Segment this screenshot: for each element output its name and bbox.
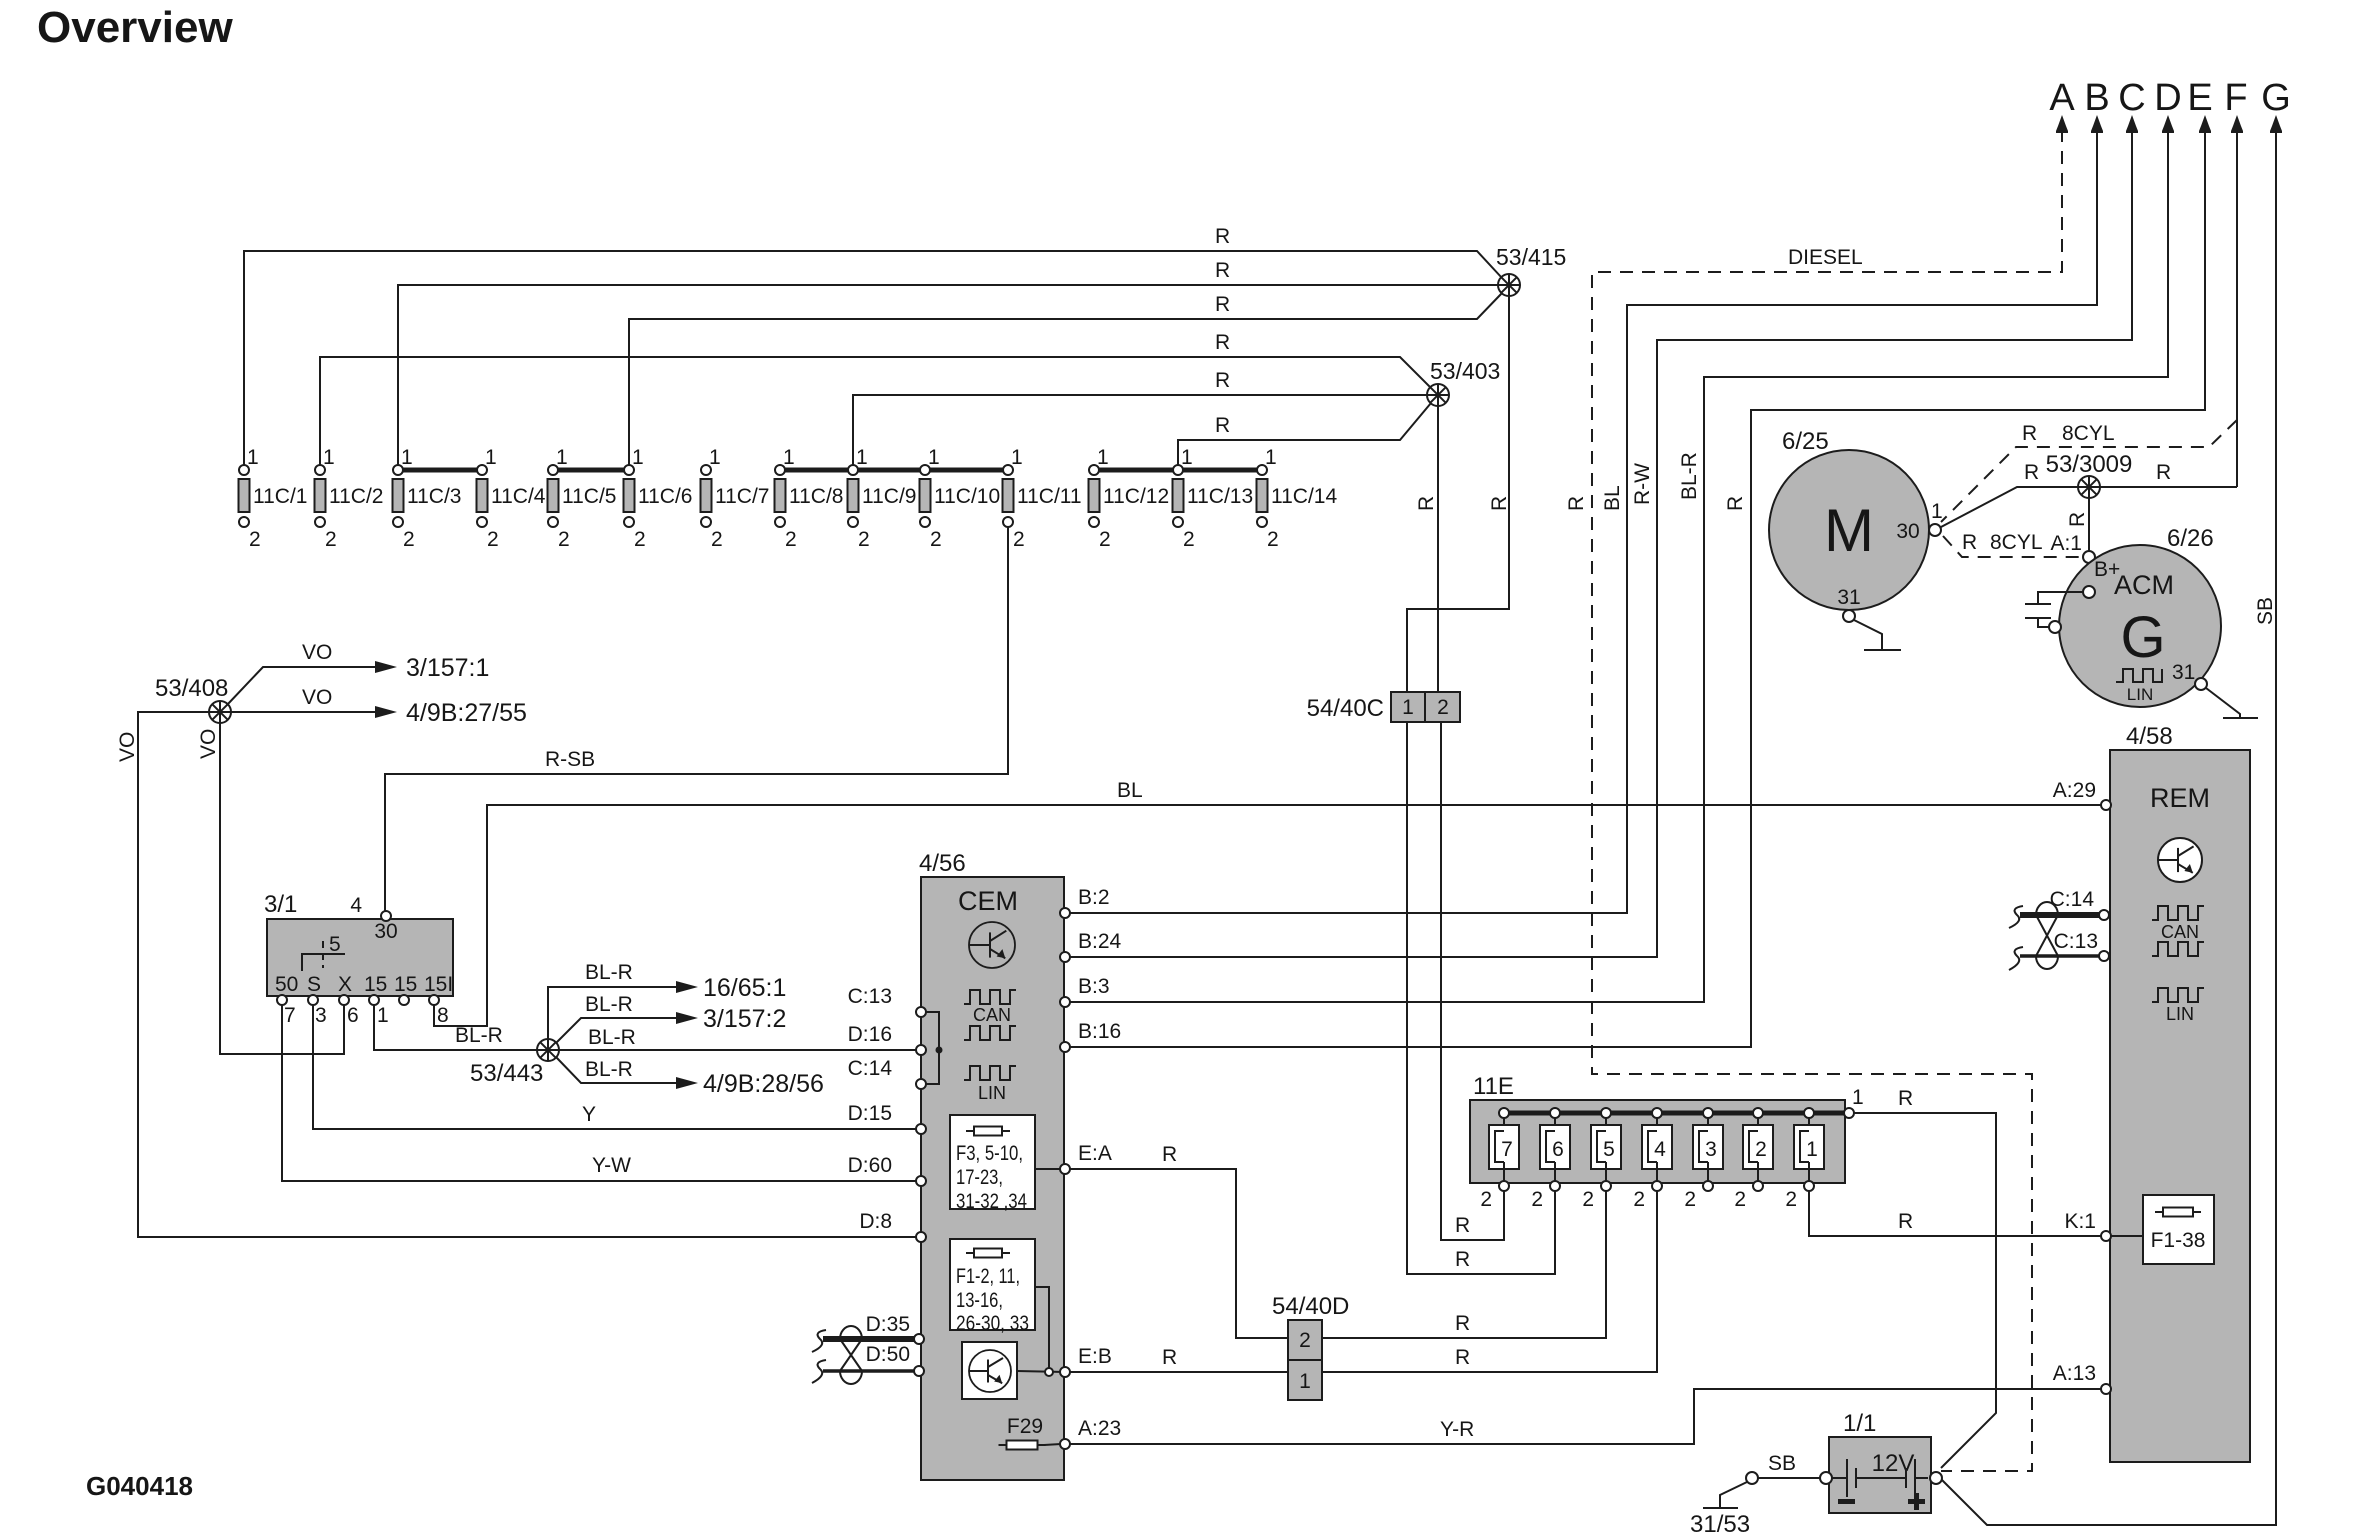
svg-text:E:B: E:B bbox=[1078, 1345, 1112, 1368]
LIN symbol in CEM bbox=[964, 1066, 1016, 1103]
svg-text:BL-R: BL-R bbox=[588, 1026, 636, 1049]
svg-text:1: 1 bbox=[632, 446, 644, 469]
terminal E:A of CEM bbox=[1060, 1142, 1112, 1174]
svg-text:K:1: K:1 bbox=[2064, 1210, 2096, 1233]
svg-text:2: 2 bbox=[249, 528, 261, 551]
svg-text:1: 1 bbox=[783, 446, 795, 469]
terminal D:15 of CEM bbox=[916, 1124, 926, 1134]
wire BL-R CEM B:3 to arrow D bbox=[1065, 129, 2168, 1002]
svg-text:BL-R: BL-R bbox=[455, 1024, 503, 1047]
svg-text:2: 2 bbox=[558, 528, 570, 551]
fuse 11C/1 bbox=[239, 446, 308, 551]
wire R 54/40D:2 to 11E:5 pin 2 bbox=[1322, 1191, 1606, 1338]
svg-text:BL-R: BL-R bbox=[585, 1058, 633, 1081]
wire R 11E:1 to battery + bbox=[1854, 1087, 1996, 1468]
svg-text:D:60: D:60 bbox=[848, 1154, 892, 1177]
fuse 11C/6 bbox=[624, 446, 693, 551]
net label B (page reference arrow) bbox=[2084, 77, 2109, 133]
svg-text:1: 1 bbox=[1299, 1370, 1311, 1393]
svg-text:3/157:2: 3/157:2 bbox=[703, 1005, 786, 1033]
terminal A:29 of REM bbox=[2053, 779, 2111, 810]
fuse 11C/2 bbox=[315, 446, 384, 551]
terminal plus of battery bbox=[1930, 1472, 1942, 1484]
svg-text:1: 1 bbox=[1097, 446, 1109, 469]
terminal minus of battery bbox=[1820, 1472, 1832, 1484]
fuse 11C/5 bbox=[548, 446, 617, 551]
svg-text:VO: VO bbox=[197, 729, 220, 759]
svg-text:53/3009: 53/3009 bbox=[2046, 451, 2133, 478]
svg-text:4/9B:27/55: 4/9B:27/55 bbox=[406, 699, 527, 727]
connector 54/40C bbox=[1307, 692, 1460, 722]
fuse group F3,5-10,17-23,31-32,34 in CEM bbox=[950, 1115, 1035, 1213]
svg-text:BL: BL bbox=[1601, 485, 1624, 511]
svg-text:8CYL: 8CYL bbox=[1990, 531, 2043, 554]
junction 53/403 bbox=[1427, 358, 1500, 406]
svg-text:D: D bbox=[2154, 77, 2181, 119]
svg-text:15I: 15I bbox=[424, 973, 453, 996]
wire VO 53/408 to 4/9B:27/55 bbox=[231, 686, 527, 727]
junction 53/415 bbox=[1496, 244, 1566, 296]
CAN symbol in CEM bbox=[964, 990, 1016, 1040]
fuse 5 in 11E bbox=[1582, 1108, 1621, 1211]
LIN square wave in ACM bbox=[2116, 669, 2162, 682]
svg-text:R-SB: R-SB bbox=[545, 748, 595, 771]
svg-text:F29: F29 bbox=[1007, 1415, 1043, 1438]
svg-text:7: 7 bbox=[1501, 1138, 1513, 1161]
svg-text:C:14: C:14 bbox=[848, 1057, 893, 1080]
fuse F1-38 in REM bbox=[2110, 1195, 2214, 1264]
svg-text:31/53: 31/53 bbox=[1690, 1511, 1750, 1537]
svg-text:7: 7 bbox=[284, 1004, 296, 1027]
svg-text:2: 2 bbox=[1684, 1188, 1696, 1211]
svg-text:3/1: 3/1 bbox=[264, 891, 297, 918]
svg-text:11C/8: 11C/8 bbox=[789, 485, 843, 508]
terminal on ACM left edge bbox=[2049, 621, 2061, 633]
fuse 4 in 11E bbox=[1633, 1108, 1672, 1211]
svg-text:2: 2 bbox=[1531, 1188, 1543, 1211]
svg-text:CEM: CEM bbox=[958, 886, 1018, 916]
svg-text:4/58: 4/58 bbox=[2126, 723, 2173, 750]
fuse 11C/10 bbox=[920, 446, 1001, 551]
wire R-W CEM B:24 to arrow C bbox=[1065, 129, 2132, 957]
wire SB arrow G down right side to battery + bbox=[1941, 129, 2277, 1525]
svg-text:31: 31 bbox=[1837, 586, 1860, 609]
svg-text:D:50: D:50 bbox=[866, 1343, 910, 1366]
svg-text:R: R bbox=[1215, 414, 1230, 437]
svg-text:53/443: 53/443 bbox=[470, 1060, 543, 1087]
internal ground plates at ACM left terminal bbox=[2025, 592, 2083, 627]
battery 1/1 12V bbox=[1829, 1410, 1931, 1513]
svg-text:5: 5 bbox=[329, 933, 341, 956]
wire R CEM E:A to 54/40D:2 bbox=[1070, 1143, 1288, 1338]
bus wire joining 11C/3-11C/4 pins 1 bbox=[398, 468, 482, 473]
svg-text:11C/2: 11C/2 bbox=[329, 485, 383, 508]
svg-text:5: 5 bbox=[1603, 1138, 1615, 1161]
svg-text:54/40C: 54/40C bbox=[1307, 695, 1384, 722]
svg-text:R: R bbox=[1565, 496, 1588, 511]
wire fuse group 2 and transistor to CEM E:B bbox=[1017, 1287, 1065, 1376]
svg-text:11C/10: 11C/10 bbox=[934, 485, 1000, 508]
ECU REM 4/58 bbox=[2110, 723, 2250, 1462]
svg-text:R: R bbox=[1162, 1143, 1177, 1166]
svg-text:E: E bbox=[2187, 77, 2212, 119]
svg-text:2: 2 bbox=[785, 528, 797, 551]
wire R 8CYL (dashed) from F vertical to M terminal 30 bbox=[1941, 420, 2237, 522]
svg-text:R: R bbox=[1215, 259, 1230, 282]
svg-text:26-30, 33: 26-30, 33 bbox=[956, 1312, 1029, 1335]
svg-text:C: C bbox=[2118, 77, 2145, 119]
svg-text:A:23: A:23 bbox=[1078, 1417, 1121, 1440]
svg-text:F: F bbox=[2224, 77, 2247, 119]
svg-text:G040418: G040418 bbox=[86, 1471, 193, 1501]
svg-text:1: 1 bbox=[323, 446, 335, 469]
svg-text:CAN: CAN bbox=[973, 1005, 1011, 1025]
svg-text:R: R bbox=[1455, 1248, 1470, 1271]
svg-text:G: G bbox=[2261, 77, 2291, 119]
svg-text:G: G bbox=[2120, 605, 2165, 670]
wire BL 3/1 terminal 15I to REM A:29 bbox=[434, 779, 2101, 1026]
svg-text:R: R bbox=[1898, 1210, 1913, 1233]
bus wire joining 11C/8-11C/11 pins 1 bbox=[780, 468, 1008, 473]
wire R 54/40C:2 down to 11E:7 pin 2 bbox=[1441, 722, 1504, 1240]
wire SB battery minus to ground 31/53 bbox=[1720, 1452, 1820, 1508]
wire BL-R 53/443 to 3/157:2 bbox=[556, 993, 786, 1043]
transistor symbol in REM bbox=[2158, 838, 2202, 882]
terminal B:2 of CEM bbox=[1060, 886, 1110, 918]
svg-text:15: 15 bbox=[394, 973, 417, 996]
svg-text:11C/9: 11C/9 bbox=[862, 485, 916, 508]
wire R 11C/13:1 to 53/403 bbox=[1178, 403, 1431, 470]
net label F (page reference arrow) bbox=[2224, 77, 2247, 133]
svg-text:1: 1 bbox=[856, 446, 868, 469]
svg-text:4/56: 4/56 bbox=[919, 850, 966, 877]
fuse 11C/3 bbox=[393, 446, 462, 551]
terminal C:13 of CEM bbox=[916, 1007, 926, 1017]
svg-text:1: 1 bbox=[1806, 1138, 1818, 1161]
svg-text:2: 2 bbox=[1755, 1138, 1767, 1161]
svg-text:53/408: 53/408 bbox=[155, 675, 228, 702]
svg-text:30: 30 bbox=[374, 920, 397, 943]
terminal A:23 of CEM bbox=[1060, 1417, 1121, 1449]
svg-text:11C/1: 11C/1 bbox=[253, 485, 307, 508]
svg-text:2: 2 bbox=[1582, 1188, 1594, 1211]
svg-text:1: 1 bbox=[928, 446, 940, 469]
junction 53/3009 bbox=[2046, 451, 2133, 498]
ground under M bbox=[1854, 620, 1901, 650]
svg-text:17-23,: 17-23, bbox=[956, 1166, 1003, 1189]
wire R CEM E:B to 54/40D:1 bbox=[1070, 1346, 1288, 1372]
svg-text:Y-R: Y-R bbox=[1440, 1418, 1474, 1441]
wire Y 3/1 S to CEM D:15 bbox=[313, 1005, 921, 1129]
svg-text:R: R bbox=[2024, 461, 2039, 484]
twisted pair C:14 / C:13 at REM bbox=[2009, 888, 2109, 970]
svg-text:11C/13: 11C/13 bbox=[1187, 485, 1253, 508]
svg-text:A:29: A:29 bbox=[2053, 779, 2096, 802]
svg-text:1: 1 bbox=[709, 446, 721, 469]
fuse 11C/8 bbox=[775, 446, 844, 551]
svg-text:A: A bbox=[2049, 77, 2075, 119]
svg-text:R: R bbox=[1898, 1087, 1913, 1110]
wire R 11E fuse 1 pin 2 to REM K:1 bbox=[1809, 1191, 2101, 1236]
ground under ACM bbox=[2206, 688, 2258, 718]
wire R 11C/6:1 to 53/415 bbox=[629, 293, 1502, 470]
LIN symbol in REM bbox=[2152, 988, 2204, 1024]
svg-text:R: R bbox=[2022, 422, 2037, 445]
fuse 11C/9 bbox=[848, 446, 917, 551]
svg-text:F3, 5-10,: F3, 5-10, bbox=[956, 1142, 1023, 1165]
svg-text:1: 1 bbox=[485, 446, 497, 469]
svg-text:1: 1 bbox=[1931, 500, 1943, 523]
svg-text:2: 2 bbox=[1267, 528, 1279, 551]
terminal 1 of 11E bbox=[1844, 1086, 1864, 1118]
svg-text:2: 2 bbox=[1183, 528, 1195, 551]
svg-text:11C/14: 11C/14 bbox=[1271, 485, 1337, 508]
wire R M terminal 30 to 53/3009 to F vertical bbox=[1941, 461, 2237, 527]
svg-text:E:A: E:A bbox=[1078, 1142, 1112, 1165]
wire R 11C/3:1 to 53/415 bbox=[398, 259, 1498, 470]
transistor symbol in CEM bbox=[969, 922, 1015, 968]
fuse 11C/11 bbox=[1003, 446, 1082, 551]
wire BL-R 53/443 to 16/65:1 bbox=[548, 961, 786, 1039]
svg-text:B+: B+ bbox=[2094, 558, 2120, 581]
svg-text:C:13: C:13 bbox=[2054, 930, 2098, 953]
svg-text:S: S bbox=[307, 973, 321, 996]
terminal 31 of M bbox=[1843, 610, 1855, 622]
svg-text:A:13: A:13 bbox=[2053, 1362, 2096, 1385]
svg-text:ACM: ACM bbox=[2114, 570, 2174, 600]
svg-text:1: 1 bbox=[1011, 446, 1023, 469]
fuse box 11E bbox=[1470, 1073, 1845, 1183]
svg-text:R: R bbox=[1724, 496, 1747, 511]
svg-text:R: R bbox=[1215, 225, 1230, 248]
svg-text:B:3: B:3 bbox=[1078, 975, 1110, 998]
svg-text:VO: VO bbox=[302, 641, 332, 664]
wire R 53/415 down to 54/40C:1 bbox=[1407, 295, 1511, 692]
terminal D:60 of CEM bbox=[916, 1176, 926, 1186]
svg-text:2: 2 bbox=[1633, 1188, 1645, 1211]
svg-text:50: 50 bbox=[275, 973, 298, 996]
svg-text:2: 2 bbox=[1437, 696, 1449, 719]
svg-text:DIESEL: DIESEL bbox=[1788, 246, 1863, 269]
wire R-SB 11C/11:2 to 3/1 terminal 4 bbox=[385, 527, 1008, 911]
svg-text:11C/11: 11C/11 bbox=[1017, 485, 1082, 508]
svg-text:31-32 ,34: 31-32 ,34 bbox=[956, 1190, 1027, 1213]
bracket joining C:13, D:16, C:14 inside CEM bbox=[921, 1012, 943, 1084]
terminal B+ of ACM bbox=[2083, 586, 2095, 598]
svg-text:11C/3: 11C/3 bbox=[407, 485, 461, 508]
svg-text:R: R bbox=[1455, 1214, 1470, 1237]
wire Y-R CEM A:23 to REM A:13 bbox=[1070, 1389, 2101, 1444]
svg-text:15: 15 bbox=[364, 973, 387, 996]
svg-text:11C/7: 11C/7 bbox=[715, 485, 769, 508]
motor M 6/25 bbox=[1769, 428, 1943, 610]
svg-text:Overview: Overview bbox=[37, 3, 233, 52]
svg-text:LIN: LIN bbox=[2166, 1004, 2194, 1024]
wire BL CEM B:2 to arrow B bbox=[1065, 129, 2097, 913]
svg-text:X: X bbox=[338, 973, 352, 996]
CAN symbol in REM bbox=[2152, 906, 2204, 956]
net label E (page reference arrow) bbox=[2187, 77, 2212, 133]
svg-text:2: 2 bbox=[1480, 1188, 1492, 1211]
svg-text:Y: Y bbox=[582, 1103, 596, 1126]
svg-text:2: 2 bbox=[711, 528, 723, 551]
svg-text:F1-38: F1-38 bbox=[2151, 1229, 2206, 1252]
svg-text:1: 1 bbox=[1265, 446, 1277, 469]
junction 53/443 bbox=[470, 1039, 559, 1087]
svg-text:R: R bbox=[1162, 1346, 1177, 1369]
wire BL-R 53/443 to 4/9B:28/56 bbox=[556, 1057, 824, 1098]
svg-text:REM: REM bbox=[2150, 783, 2210, 813]
svg-text:3: 3 bbox=[1705, 1138, 1717, 1161]
svg-text:1/1: 1/1 bbox=[1843, 1410, 1876, 1437]
svg-text:R: R bbox=[1215, 331, 1230, 354]
svg-text:6: 6 bbox=[1552, 1138, 1564, 1161]
svg-text:4: 4 bbox=[350, 894, 362, 917]
svg-text:3/157:1: 3/157:1 bbox=[406, 654, 489, 682]
svg-text:2: 2 bbox=[325, 528, 337, 551]
svg-text:SB: SB bbox=[1768, 1452, 1796, 1475]
svg-text:BL: BL bbox=[1117, 779, 1143, 802]
svg-text:2: 2 bbox=[1299, 1329, 1311, 1352]
wire BL-R 3/1 15 to 53/443 to CEM D:16 bbox=[374, 1005, 921, 1050]
svg-text:2: 2 bbox=[1013, 528, 1025, 551]
terminal 4 of 3/1 bbox=[381, 911, 391, 921]
svg-text:B:24: B:24 bbox=[1078, 930, 1122, 953]
net label D (page reference arrow) bbox=[2154, 77, 2181, 133]
svg-text:1: 1 bbox=[1181, 446, 1193, 469]
wire R CEM B:16 to arrow E bbox=[1065, 129, 2205, 1047]
svg-text:8: 8 bbox=[437, 1004, 449, 1027]
wire R DIESEL (dashed) arrow A to battery + : A down bbox=[1565, 129, 2062, 1471]
svg-text:D:16: D:16 bbox=[848, 1023, 892, 1046]
terminal B:3 of CEM bbox=[1060, 975, 1110, 1007]
fuse 11C/14 bbox=[1257, 446, 1338, 551]
wire VO 53/408 left branch down to CEM D:8 bbox=[116, 712, 921, 1237]
generator ACM G 6/26 bbox=[2059, 525, 2221, 707]
svg-text:R: R bbox=[2156, 461, 2171, 484]
wire R 11C/2:1 to 53/403 bbox=[320, 331, 1431, 470]
svg-text:13-16,: 13-16, bbox=[956, 1289, 1003, 1312]
terminal S of 3/1 bbox=[308, 995, 318, 1005]
svg-text:R: R bbox=[1488, 496, 1511, 511]
svg-text:LIN: LIN bbox=[978, 1083, 1006, 1103]
svg-text:R: R bbox=[2066, 512, 2089, 527]
svg-text:53/403: 53/403 bbox=[1430, 358, 1500, 384]
fuse 3 in 11E bbox=[1684, 1108, 1723, 1211]
wire VO 53/408 down to 3/1 terminal X bbox=[197, 723, 344, 1054]
terminal 31 of ACM bbox=[2195, 678, 2207, 690]
svg-text:2: 2 bbox=[1785, 1188, 1797, 1211]
svg-text:1: 1 bbox=[556, 446, 568, 469]
svg-text:31: 31 bbox=[2172, 661, 2195, 684]
svg-text:A:1: A:1 bbox=[2050, 532, 2082, 555]
net label G (page reference arrow) bbox=[2261, 77, 2291, 133]
svg-text:VO: VO bbox=[302, 686, 332, 709]
fuse 11C/4 bbox=[477, 446, 546, 551]
wire R 54/40C:1 down to 11E:6 pin 2 bbox=[1407, 722, 1555, 1274]
svg-text:D:8: D:8 bbox=[859, 1210, 892, 1233]
svg-text:BL-R: BL-R bbox=[585, 993, 633, 1016]
svg-text:R: R bbox=[1215, 369, 1230, 392]
ground 31/53 bbox=[1690, 1508, 1750, 1537]
terminal 15 of 3/1 bbox=[399, 995, 409, 1005]
net label C (page reference arrow) bbox=[2118, 77, 2145, 133]
svg-text:R-W: R-W bbox=[1631, 463, 1654, 505]
svg-text:B: B bbox=[2084, 77, 2109, 119]
terminal B:16 of CEM bbox=[1060, 1020, 1121, 1052]
svg-text:12V: 12V bbox=[1872, 1450, 1915, 1477]
wire R 11C/9:1 to 53/403 bbox=[853, 369, 1427, 470]
wire fuse group 1 to CEM E:A bbox=[1035, 1168, 1065, 1170]
svg-text:CAN: CAN bbox=[2161, 922, 2199, 942]
bus bar in 11E bbox=[1504, 1111, 1844, 1116]
svg-text:B:16: B:16 bbox=[1078, 1020, 1121, 1043]
terminal 15(1) of 3/1 bbox=[369, 995, 379, 1005]
wire R 8CYL (dashed) M terminal 30 to ACM A:1 bbox=[1943, 531, 2081, 557]
terminal 30 of M bbox=[1929, 524, 1941, 536]
svg-text:Y-W: Y-W bbox=[592, 1154, 631, 1177]
svg-text:8CYL: 8CYL bbox=[2062, 422, 2115, 445]
svg-text:BL-R: BL-R bbox=[1678, 452, 1701, 500]
svg-text:R: R bbox=[1962, 531, 1977, 554]
fuse F29 in CEM bbox=[999, 1415, 1062, 1450]
switch contact symbol inside 3/1 bbox=[302, 933, 345, 971]
bus wire joining 11C/12-11C/14 pins 1 bbox=[1094, 468, 1262, 473]
svg-text:D:35: D:35 bbox=[866, 1313, 910, 1336]
svg-text:R: R bbox=[1215, 293, 1230, 316]
svg-text:2: 2 bbox=[403, 528, 415, 551]
terminal K:1 of REM bbox=[2064, 1210, 2111, 1241]
terminal 15I of 3/1 bbox=[429, 995, 439, 1005]
svg-text:VO: VO bbox=[116, 732, 139, 762]
wire R 53/3009 down to ACM B+ bbox=[2066, 498, 2089, 592]
svg-text:F1-2, 11,: F1-2, 11, bbox=[956, 1265, 1020, 1288]
terminal 50 of 3/1 bbox=[277, 995, 287, 1005]
terminal A:13 of REM bbox=[2053, 1362, 2111, 1394]
wire R 11C/1:1 to 53/415 bbox=[244, 225, 1502, 470]
ignition switch 3/1 bbox=[264, 891, 453, 1027]
svg-text:30: 30 bbox=[1896, 520, 1919, 543]
svg-text:M: M bbox=[1824, 497, 1874, 564]
bus wire joining 11C/5-11C/6 pins 1 bbox=[553, 468, 629, 473]
svg-text:54/40D: 54/40D bbox=[1272, 1293, 1349, 1320]
svg-text:4/9B:28/56: 4/9B:28/56 bbox=[703, 1070, 824, 1098]
fuse 7 in 11E bbox=[1480, 1108, 1519, 1211]
svg-text:4: 4 bbox=[1654, 1138, 1666, 1161]
fuse 1 in 11E bbox=[1785, 1108, 1824, 1211]
svg-text:1: 1 bbox=[401, 446, 413, 469]
fuse 11C/13 bbox=[1173, 446, 1254, 551]
svg-text:R: R bbox=[1455, 1312, 1470, 1335]
fuse 6 in 11E bbox=[1531, 1108, 1570, 1211]
wire R arrow F solid vertical bbox=[2236, 129, 2238, 487]
svg-text:2: 2 bbox=[1734, 1188, 1746, 1211]
wire R 53/403 down to 54/40C:2 bbox=[1415, 405, 1438, 692]
svg-text:16/65:1: 16/65:1 bbox=[703, 974, 786, 1002]
fuse 11C/12 bbox=[1089, 446, 1170, 551]
terminal E:B of CEM bbox=[1060, 1345, 1112, 1377]
terminal D:8 of CEM bbox=[916, 1232, 926, 1242]
terminal D:16 of CEM bbox=[916, 1045, 926, 1055]
wire R 54/40D:1 to 11E:4 pin 2 bbox=[1322, 1191, 1657, 1372]
svg-text:11C/12: 11C/12 bbox=[1103, 485, 1169, 508]
svg-text:11C/6: 11C/6 bbox=[638, 485, 692, 508]
fuse group F1-2,11,13-16,26-30,33 in CEM bbox=[950, 1239, 1035, 1335]
svg-text:BL-R: BL-R bbox=[585, 961, 633, 984]
svg-text:3: 3 bbox=[315, 1004, 327, 1027]
wire Y-W 3/1 50 to CEM D:60 bbox=[282, 1005, 921, 1181]
svg-text:11E: 11E bbox=[1473, 1073, 1514, 1100]
